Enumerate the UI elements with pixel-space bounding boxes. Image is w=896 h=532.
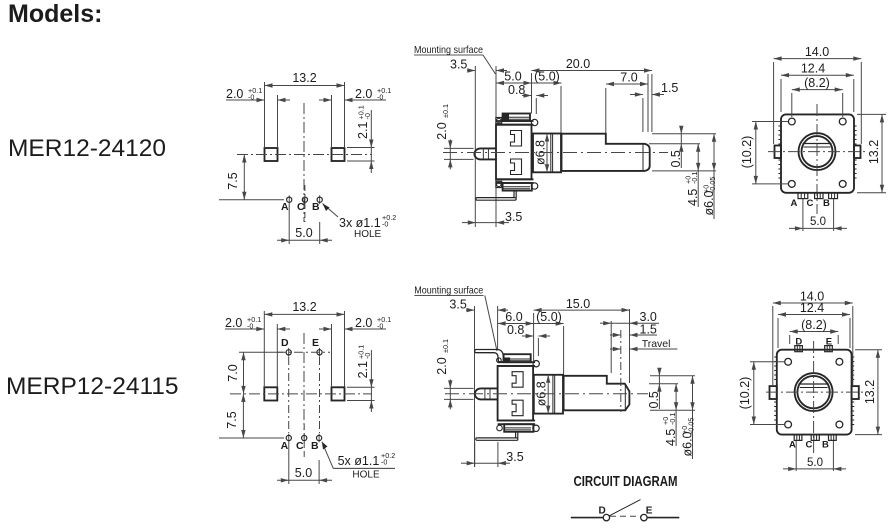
svg-text:4.5: 4.5: [664, 429, 678, 446]
svg-text:20.0: 20.0: [566, 57, 590, 71]
svg-text:-0: -0: [377, 93, 383, 102]
svg-text:5.0: 5.0: [295, 226, 312, 240]
circuit node E label: [646, 506, 653, 517]
M1 cap hatch top: [504, 117, 531, 119]
M1 dim 4.5: [683, 144, 700, 207]
circuit switch lever: [609, 500, 640, 516]
svg-text:12.4: 12.4: [800, 301, 824, 315]
F2 dim 13.2: [863, 350, 880, 435]
L1 hole labels A C B: [281, 201, 320, 213]
L2 dim 7.0: [226, 352, 283, 394]
F1 corner hole BL: [788, 181, 795, 188]
L2 dim 7.5: [219, 394, 284, 438]
M1 dim 1.5: [630, 81, 678, 97]
L2 right mounting pad: [332, 387, 345, 400]
M2 rivet bottom right: [533, 425, 539, 431]
F1 body: [781, 114, 854, 192]
M2 body notch lower: [512, 400, 523, 416]
F1 dim 12.4: [781, 62, 854, 78]
M1 pcb leg: [476, 191, 516, 201]
M1 ext 1.5: [643, 74, 652, 132]
L1 hole B: [317, 195, 322, 204]
F2 side tab right: [852, 386, 859, 399]
L2 hole labels A C B: [281, 440, 319, 452]
L1 hole C: [302, 195, 307, 204]
L2 left mounting pad: [264, 387, 277, 400]
M2 dim 1.5: [610, 323, 657, 338]
F2 horizontal centerline: [766, 391, 865, 393]
M2 dim Travel: [610, 338, 678, 351]
F2 body: [777, 350, 852, 435]
L2 note 5x dia 1.1 hole: [333, 451, 395, 481]
M2 body main outline: [498, 366, 533, 421]
svg-text:7.0: 7.0: [226, 364, 240, 381]
M2 ext 0.8: [537, 338, 539, 356]
L1 extension lines above pads: [265, 82, 345, 148]
F1 dim 13.2: [867, 114, 884, 192]
M1 ext shaft top: [652, 133, 716, 135]
M1 dim 5.0: [496, 70, 532, 86]
L2 dim 13.2: [264, 300, 344, 317]
L2 hole B: [317, 434, 322, 443]
svg-text:(8.2): (8.2): [801, 318, 827, 332]
M1 view centerline: [443, 152, 668, 154]
svg-text:13.2: 13.2: [292, 71, 316, 85]
M2 dim 4.5: [661, 384, 678, 446]
L2 extension lines above pads: [264, 311, 344, 387]
M1 locating pin: [474, 148, 496, 159]
F2 dim 14.0: [773, 290, 853, 306]
M2 rivet top right: [533, 361, 539, 367]
L2 hole A: [286, 434, 291, 443]
M1 ext body right up: [531, 73, 533, 114]
svg-text:0.8: 0.8: [508, 83, 525, 97]
svg-text:Mounting surface: Mounting surface: [414, 285, 483, 297]
M1 body notch upper: [511, 131, 522, 147]
M1 collar: [533, 134, 561, 173]
L2 extension lines below holes: [289, 442, 319, 484]
F1 side tab right: [854, 146, 861, 159]
svg-text:HOLE: HOLE: [354, 229, 382, 240]
F2 dim 5.0: [783, 457, 846, 471]
M2 ext body right up: [533, 313, 535, 362]
M2 dim 2.0 pin: [435, 339, 474, 409]
M2 dim 6.0: [498, 310, 534, 326]
circuit node D label: [599, 506, 606, 517]
svg-text:(5.0): (5.0): [534, 70, 560, 84]
M1 dim dia 6.0: [701, 134, 717, 219]
M1 ext 7.0 right: [647, 74, 649, 132]
svg-text:HOLE: HOLE: [352, 470, 380, 481]
L2 horizontal centerline pads: [230, 393, 372, 395]
svg-text:C: C: [807, 198, 814, 209]
svg-text:2.1: 2.1: [356, 122, 370, 139]
svg-text:-0: -0: [248, 93, 254, 102]
M2 shaft chamfer line: [624, 384, 626, 410]
svg-text:0.5: 0.5: [669, 150, 683, 167]
M2 locating pin: [475, 388, 498, 399]
svg-text:1.5: 1.5: [661, 81, 678, 95]
L1 hidden line below C: [304, 185, 306, 222]
svg-text:5x ø1.1: 5x ø1.1: [338, 454, 380, 468]
F1 dim 14.0: [774, 45, 862, 61]
M1 body top cap: [503, 114, 530, 122]
M2 body top flange: [498, 362, 535, 366]
M1 dim dia 6.8: [533, 134, 549, 173]
M1 ext 0.8: [535, 98, 537, 114]
F2 shaft flat: [799, 384, 829, 388]
L2 hole labels D E: [281, 337, 319, 349]
F2 collar circle: [795, 373, 833, 411]
L1 dim 7.5: [219, 155, 284, 200]
L2 hidden line below C: [303, 424, 305, 459]
svg-text:5.0: 5.0: [295, 466, 312, 480]
M2 body bottom flange: [498, 421, 535, 425]
circuit switch dashed travel: [610, 515, 641, 517]
F1 ext 12.4: [781, 79, 854, 112]
svg-text:14.0: 14.0: [805, 45, 829, 59]
svg-text:-0: -0: [377, 322, 383, 331]
svg-text:0.8: 0.8: [507, 323, 524, 337]
svg-text:-0: -0: [363, 113, 372, 119]
svg-text:ø6.0: ø6.0: [702, 190, 716, 215]
svg-text:2.0: 2.0: [355, 316, 372, 330]
F2 pin labels A C B: [789, 440, 829, 451]
svg-text:3.5: 3.5: [449, 298, 466, 312]
svg-text:5.0: 5.0: [807, 457, 823, 469]
L2 dim 2.1: [347, 345, 375, 412]
F2 corner hole TR: [836, 358, 843, 365]
svg-text:±0.1: ±0.1: [441, 104, 450, 118]
M2 ext lines bottom 3.5: [475, 442, 498, 467]
F2 ext 10.2: [750, 362, 785, 425]
L2 hole C: [302, 434, 307, 443]
svg-text:-0: -0: [382, 220, 388, 229]
svg-text:-0: -0: [247, 322, 253, 331]
F1 vertical centerline: [816, 104, 818, 214]
svg-text:-0.1: -0.1: [668, 413, 677, 425]
F1 ext 10.2: [752, 122, 788, 184]
svg-text:(10.2): (10.2): [738, 377, 752, 410]
L1 extension lines below holes: [289, 204, 320, 244]
M1 body bottom flange: [496, 179, 534, 183]
M1 dim (5.0): [532, 70, 562, 86]
svg-text:3x ø1.1: 3x ø1.1: [339, 216, 381, 230]
svg-text:B: B: [823, 198, 830, 209]
M2 pcb leg: [476, 432, 518, 441]
F1 pin labels: [791, 198, 831, 209]
M1 label Mounting surface: [414, 44, 483, 56]
L2 leader to hole note: [322, 442, 333, 469]
M2 dim 15.0: [534, 297, 630, 313]
M2 cap hatch bottom: [505, 428, 531, 430]
F2 side tab left: [770, 386, 777, 399]
M2 dim dia 6.0: [680, 376, 696, 459]
L2 vertical centerline: [303, 333, 305, 430]
M1 dim 3.5 bottom: [462, 210, 522, 225]
M1 dim 7.0: [606, 71, 648, 87]
circuit diagram title: [574, 473, 678, 490]
svg-text:2.0: 2.0: [225, 316, 242, 330]
M1 shaft chamfer line: [642, 144, 644, 171]
svg-text:13.2: 13.2: [292, 300, 316, 314]
svg-text:2.0: 2.0: [435, 357, 449, 374]
F2 dim 12.4: [778, 301, 850, 317]
M1 extension line left (pin tip): [474, 66, 476, 227]
svg-text:A: A: [789, 440, 796, 451]
svg-text:(8.2): (8.2): [804, 76, 830, 90]
F2 pin D: [795, 346, 803, 352]
M2 ext flat top: [649, 383, 678, 385]
M1 shaft outline: [562, 134, 650, 171]
svg-text:-0.05: -0.05: [708, 177, 717, 193]
svg-text:A: A: [281, 440, 289, 452]
F2 edge serrations left: [774, 357, 777, 425]
M2 lever pivot circle: [497, 358, 502, 363]
M2 label Mounting surface: [414, 285, 483, 297]
svg-text:MERP12-24115: MERP12-24115: [6, 373, 179, 400]
svg-text:4.5: 4.5: [686, 189, 700, 206]
M2 cap hatch top: [505, 359, 530, 361]
M2 dim (5.0): [534, 310, 564, 326]
L1 left mounting pad: [265, 148, 278, 161]
M2 ext 3.0 left: [610, 321, 612, 373]
M2 dim 3.5 top: [449, 298, 508, 313]
M1 rivet bottom right: [531, 183, 537, 189]
M2 body notch upper: [512, 372, 523, 388]
M1 cap dark end: [503, 115, 509, 121]
M2 dim dia 6.8: [535, 375, 551, 414]
circuit node E: [641, 514, 647, 520]
M1 ext collar right up: [560, 86, 562, 134]
svg-text:3.5: 3.5: [450, 58, 467, 72]
svg-text:C: C: [297, 201, 305, 213]
svg-text:CIRCUIT DIAGRAM: CIRCUIT DIAGRAM: [574, 473, 678, 490]
F1 shaft flat: [803, 144, 832, 148]
F2 dim (10.2): [738, 362, 756, 425]
F2 pin A: [794, 435, 802, 441]
F1 corner hole BR: [839, 181, 846, 188]
svg-text:E: E: [312, 337, 319, 349]
L1 vertical centerline: [303, 103, 305, 222]
svg-text:-0: -0: [381, 458, 387, 467]
M2 body top cap: [504, 354, 531, 362]
M2 view centerline: [445, 393, 648, 395]
F1 edge serrations left: [778, 126, 781, 178]
svg-text:5.0: 5.0: [810, 216, 826, 228]
F1 ext 5.0: [803, 199, 834, 231]
F1 side tab left: [775, 146, 782, 159]
F2 corner hole BL: [785, 421, 792, 428]
L2 dim 2.0 left: [225, 315, 290, 331]
F2 dim (8.2): [790, 318, 839, 334]
L2 centerline through D E: [277, 351, 330, 353]
F2 ext 5.0: [796, 441, 833, 471]
svg-text:B: B: [311, 440, 319, 452]
F1 ext 13.2: [857, 114, 886, 192]
L1 dim 2.0 right: [319, 86, 391, 102]
svg-text:3.5: 3.5: [506, 450, 523, 464]
F1 dim (8.2): [792, 76, 843, 92]
F1 pin B: [829, 193, 838, 199]
F2 pin labels D E: [795, 336, 832, 347]
svg-text:A: A: [791, 198, 798, 209]
svg-text:2.0: 2.0: [435, 122, 449, 139]
M1 rivet top right: [531, 119, 537, 125]
svg-text:13.2: 13.2: [863, 380, 877, 404]
M1 dim 0.8: [508, 83, 548, 98]
F2 corner hole BR: [836, 421, 843, 428]
F2 ext 14.0: [773, 306, 853, 385]
M2 travel hidden line: [620, 330, 622, 412]
M1 body notch lower: [511, 159, 522, 175]
svg-text:-0: -0: [363, 353, 372, 359]
svg-text:-0.05: -0.05: [687, 418, 696, 434]
svg-text:D: D: [281, 337, 289, 349]
M1 ext shaft bottom: [652, 170, 716, 172]
L1 note 3x dia 1.1 hole: [339, 213, 396, 240]
L2 dim 5.0: [277, 466, 332, 483]
F1 pin C: [815, 193, 823, 199]
model label MER12-24120: [8, 135, 166, 162]
M1 dim 0.5: [669, 126, 684, 168]
F1 shaft circle: [802, 136, 833, 167]
F2 pin C: [811, 435, 819, 441]
M1 dim 20.0: [532, 57, 652, 73]
M2 extension line mounting surface: [497, 306, 499, 350]
M1 extension line mounting surface: [495, 66, 497, 227]
F1 pin A: [798, 193, 808, 199]
svg-text:5.0: 5.0: [504, 70, 521, 84]
M1 body top flange: [496, 121, 534, 125]
L1 horizontal centerline: [237, 154, 372, 156]
svg-text:±0.1: ±0.1: [441, 339, 450, 353]
F2 ext 12.4: [778, 318, 850, 348]
svg-text:A: A: [281, 201, 289, 213]
L1 dim 2.0 left: [226, 86, 290, 102]
F2 edge serrations right: [852, 357, 855, 425]
svg-text:1.5: 1.5: [640, 323, 657, 337]
circuit wire right: [647, 517, 679, 519]
M1 body bottom cap: [503, 183, 532, 191]
F1 dim (10.2): [740, 122, 758, 184]
svg-text:2.1: 2.1: [356, 361, 370, 378]
F1 ext 8.2: [792, 93, 843, 117]
svg-text:7.0: 7.0: [620, 71, 637, 85]
M2 extension line left (lever tip): [474, 306, 476, 467]
M1 ext flat top: [649, 143, 700, 145]
circuit node D: [603, 514, 609, 520]
F1 corner hole TL: [788, 118, 795, 125]
F1 dim 5.0: [789, 216, 847, 230]
svg-text:-0.1: -0.1: [690, 172, 699, 184]
F2 pin E: [825, 346, 833, 352]
M1 body tab bottom left: [496, 181, 502, 187]
circuit wire left: [571, 517, 603, 519]
F2 corner hole TL: [785, 358, 792, 365]
svg-text:C: C: [806, 440, 813, 451]
F2 shaft circle: [797, 376, 829, 408]
svg-text:Travel: Travel: [642, 338, 671, 350]
svg-text:B: B: [822, 440, 829, 451]
M2 dim 0.5: [647, 368, 662, 409]
svg-text:2.0: 2.0: [355, 87, 372, 101]
svg-text:2.0: 2.0: [226, 87, 243, 101]
L1 hole A: [287, 195, 292, 204]
svg-text:12.4: 12.4: [801, 62, 825, 76]
M2 ext shaft end up: [629, 309, 631, 383]
L2 hidden line D column: [288, 357, 290, 433]
M2 shaft outline: [564, 376, 630, 411]
L1 leader to hole note: [323, 204, 339, 218]
svg-text:D: D: [599, 506, 606, 517]
svg-text:C: C: [296, 440, 304, 452]
L2 hole E: [317, 348, 322, 357]
F1 edge serrations right: [854, 126, 857, 178]
L1 right mounting pad: [332, 148, 345, 161]
L2 hidden line E column: [319, 357, 321, 433]
M2 ext shaft top: [650, 375, 695, 377]
M1 body main outline: [496, 125, 532, 180]
F2 pin B: [829, 435, 837, 441]
F1 collar circle: [799, 133, 836, 170]
L1 dim 2.1: [347, 105, 375, 173]
M2 dim 3.5 bottom: [461, 450, 524, 465]
svg-text:E: E: [646, 506, 653, 517]
svg-text:6.0: 6.0: [505, 310, 522, 324]
page title Models:: [8, 0, 102, 28]
M1 cap hatch bottom: [504, 187, 531, 189]
svg-text:E: E: [826, 336, 832, 347]
M2 ext collar right up: [563, 326, 565, 375]
L1 dim 13.2: [265, 71, 345, 88]
M2 dim 3.0: [600, 310, 659, 325]
F2 ext 8.2: [790, 335, 839, 344]
svg-text:3.5: 3.5: [505, 210, 522, 224]
svg-text:MER12-24120: MER12-24120: [8, 135, 166, 162]
svg-text:Mounting surface: Mounting surface: [414, 44, 483, 56]
svg-text:0.5: 0.5: [647, 391, 661, 408]
F1 ext 14.0: [774, 62, 862, 144]
F1 corner hole TR: [839, 118, 846, 125]
svg-text:13.2: 13.2: [867, 140, 881, 164]
M2 dim 0.8: [507, 323, 550, 338]
M2 collar: [534, 375, 563, 414]
M1 ext step up: [605, 88, 607, 134]
M2 cap dark end: [505, 358, 510, 362]
svg-text:(10.2): (10.2): [740, 136, 754, 169]
L1 dim 5.0: [277, 226, 332, 243]
F2 ext 13.2: [855, 350, 882, 435]
svg-text:(5.0): (5.0): [536, 310, 562, 324]
svg-text:15.0: 15.0: [566, 297, 590, 311]
M2 body bottom cap: [504, 424, 533, 432]
L2 hole D: [286, 348, 291, 357]
svg-text:D: D: [795, 336, 802, 347]
M1 dim 2.0 pin: [435, 104, 474, 169]
svg-text:ø6.0: ø6.0: [681, 431, 695, 456]
F1 horizontal centerline: [768, 151, 866, 153]
M2 leader from mounting surface label: [485, 296, 497, 352]
svg-text:7.5: 7.5: [226, 172, 240, 189]
M2 lever: [475, 350, 504, 362]
svg-text:7.5: 7.5: [225, 411, 239, 428]
M1 body tab top left: [496, 118, 502, 124]
F2 vertical centerline: [813, 341, 815, 455]
M1 leader from mounting surface label: [483, 55, 496, 74]
M2 ext shaft bottom: [650, 409, 695, 411]
M1 dim 3.5 top: [450, 58, 507, 73]
